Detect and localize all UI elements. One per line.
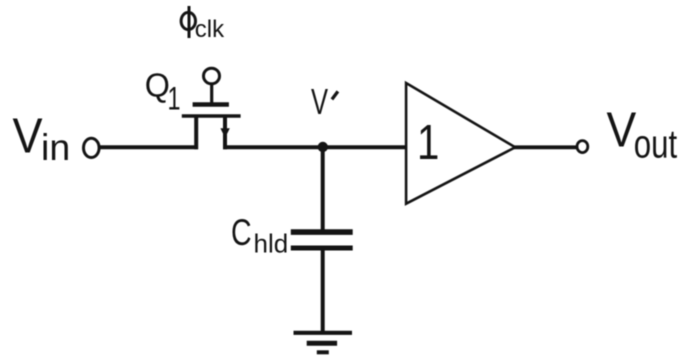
transistor Q1 arrow	[220, 128, 229, 138]
svg-text:in: in	[41, 126, 70, 168]
capacitor Chld top plate	[291, 229, 353, 235]
svg-text:V: V	[607, 103, 637, 157]
transistor Q1 drain leg	[223, 116, 227, 149]
capacitor Chld bottom plate	[291, 246, 353, 251]
label Q1	[145, 66, 181, 116]
svg-text:C: C	[231, 211, 252, 252]
label Vout	[607, 103, 678, 167]
svg-text:Q: Q	[145, 66, 170, 103]
wire: input segment Vin to Q1 source	[100, 145, 199, 149]
ground symbol	[294, 333, 353, 353]
label Vin	[13, 108, 71, 168]
svg-text:1: 1	[168, 80, 181, 117]
wire: capacitor to ground	[321, 249, 325, 333]
wire: buffer output to Vout	[514, 145, 576, 149]
svg-text:V: V	[13, 108, 44, 163]
label V'	[311, 80, 338, 122]
svg-text:V: V	[311, 80, 328, 122]
node V' junction dot	[318, 142, 328, 152]
svg-text:hld: hld	[254, 229, 289, 259]
svg-text:1: 1	[417, 115, 439, 170]
transistor Q1 channel bar	[182, 114, 241, 117]
wire: node to capacitor	[321, 147, 325, 232]
output terminal circle	[577, 141, 588, 153]
wire: gate stem	[210, 85, 213, 106]
svg-text:clk: clk	[195, 16, 225, 43]
transistor Q1 gate bar	[193, 102, 229, 107]
wire: Q1 drain to buffer input	[223, 145, 406, 149]
input terminal circle	[84, 138, 100, 157]
label phi_clk	[181, 6, 225, 43]
transistor Q1 source leg	[194, 116, 198, 149]
svg-text:out: out	[634, 122, 677, 167]
op-amp buffer U1 (unity gain)	[406, 83, 515, 204]
label Chld	[231, 211, 288, 258]
clock terminal circle	[204, 68, 220, 84]
